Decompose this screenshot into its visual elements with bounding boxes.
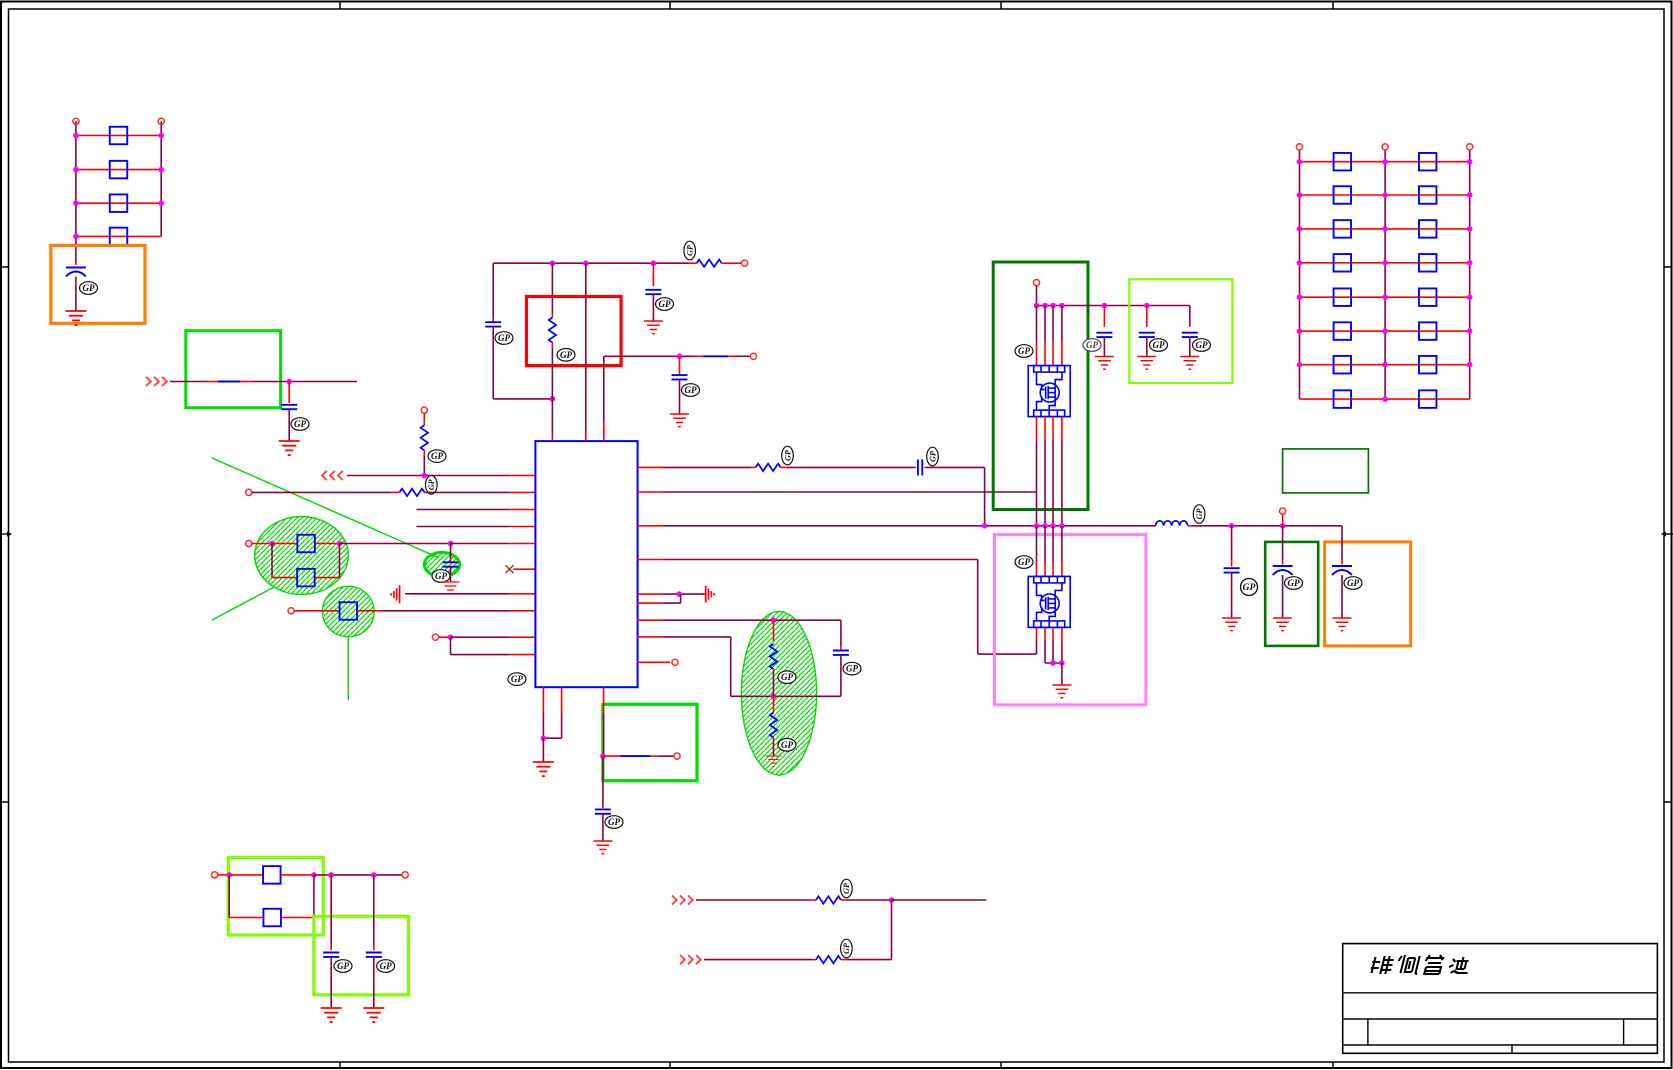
wire Q1 pin2 bot [1044, 417, 1046, 441]
label C17 GP [377, 960, 395, 973]
capacitor C7 series [917, 459, 919, 475]
node rail right [160, 121, 162, 236]
wire IN1 b [251, 381, 357, 383]
junction grid M8 [1382, 396, 1388, 402]
wire N3 [416, 526, 509, 528]
wire R10 to port [722, 262, 742, 264]
wire Q2 pin3 top [1052, 526, 1054, 562]
green annotation box 2 [186, 331, 281, 408]
capacitor C5 [645, 289, 661, 291]
svg-text:GP: GP [783, 450, 792, 461]
highlight circle around C-TP [424, 552, 459, 576]
wire OUT1 [347, 475, 510, 477]
port arrows IN3 [680, 955, 701, 964]
label R11 GP [557, 349, 575, 362]
resistor RG2 [1419, 153, 1437, 171]
junction grid R7 [1467, 362, 1473, 368]
svg-text:GP: GP [928, 451, 937, 462]
junction Qbus3 [1050, 303, 1056, 309]
orange annotation box 1 [51, 245, 145, 323]
wire Q1 pin1 bot [1036, 417, 1038, 441]
resistor RG8 [1419, 254, 1437, 271]
junction JB2 [600, 753, 606, 759]
label C11 GP [1150, 339, 1168, 352]
wire C15 stem [1341, 526, 1343, 560]
junction grid M1 [1382, 159, 1388, 165]
junction J4a [269, 541, 275, 547]
wire Q2 gate tail [1036, 627, 1038, 640]
wire IN1 a [170, 381, 207, 383]
fuse F1 [218, 381, 240, 383]
wire grid row 1b [1385, 161, 1470, 163]
light green annotation box 2 [228, 857, 323, 935]
svg-text:GP: GP [498, 333, 510, 343]
svg-text:GP: GP [686, 245, 695, 256]
wire Q1 bus [1037, 305, 1190, 307]
wire RN5 [638, 593, 663, 595]
resistor R1 [110, 127, 128, 145]
port PG3 [1467, 144, 1473, 150]
resistor R3 [110, 194, 128, 212]
wire N4 a [252, 543, 272, 545]
junction grid L5 [1297, 294, 1303, 300]
capacitor C8 [833, 650, 849, 652]
wire N7 a [439, 636, 451, 638]
wire RN7 [638, 619, 663, 621]
junction JB1 [541, 735, 547, 741]
wire BL row2 l [229, 917, 263, 919]
wire Q1 pin4 bot [1061, 417, 1063, 441]
inductor L1 [1156, 521, 1188, 526]
resistor R13 [770, 644, 777, 669]
fuse F1 leads [207, 381, 218, 383]
port arrows OUT1 [322, 471, 343, 480]
wire N4 d [340, 543, 451, 545]
ground C3 [442, 582, 460, 594]
resistor R17 [816, 896, 841, 903]
capacitor C10 [1096, 332, 1112, 334]
dark green annotation box 2 [1283, 449, 1369, 493]
svg-text:GP: GP [560, 350, 572, 360]
svg-text:GP: GP [1086, 340, 1098, 350]
capacitor C13 [1224, 567, 1240, 569]
dark green annotation box 3 [1265, 542, 1318, 646]
wire row 2 [76, 169, 161, 171]
port PG2 [1382, 144, 1388, 150]
junction JC2 [1280, 523, 1286, 529]
wire BL row1 r [281, 874, 314, 876]
junction grid M6 [1382, 328, 1388, 334]
wire Q2 source join [1045, 662, 1062, 664]
capacitor C12 [1182, 332, 1198, 334]
wire grid row 3a [1300, 228, 1386, 230]
wire M2 b [841, 959, 847, 961]
wire bus2 [1188, 525, 1192, 527]
svg-text:GP: GP [659, 299, 671, 309]
wire C6 stem [679, 356, 681, 374]
resistor RG12 [1419, 322, 1437, 340]
wire C17 gnd [373, 957, 375, 1008]
wire Q2 pin3 bot [1052, 627, 1054, 641]
wire M1 b [841, 899, 847, 901]
wire N6 a [295, 610, 340, 612]
wire M1 a [696, 899, 812, 901]
capacitor C11 [1139, 332, 1155, 334]
label R13 GP [778, 671, 796, 684]
junction JC1 [1229, 523, 1235, 529]
chassis symbol G1 [391, 585, 399, 603]
wire C5 gnd [652, 294, 654, 321]
wire grid row 2b [1385, 194, 1470, 196]
wire grid row 3b [1385, 228, 1470, 230]
junction left row 2 [73, 167, 79, 173]
wire out row [603, 755, 621, 757]
ground C17 [363, 1008, 384, 1022]
green annotation line 1 [212, 458, 439, 558]
junction right row 2 [158, 167, 164, 173]
svg-text:GP: GP [685, 385, 697, 395]
junction grid L1 [1297, 159, 1303, 165]
junction grid M2 [1382, 192, 1388, 198]
junction J9 [677, 354, 683, 360]
resistor R4 [110, 228, 128, 246]
resistor RG15 [1334, 390, 1352, 408]
port P8 [742, 260, 748, 266]
wire C14 stem [1282, 526, 1284, 560]
svg-text:GP: GP [842, 943, 851, 954]
junction grid R4 [1467, 260, 1473, 266]
svg-text:GP: GP [1288, 578, 1300, 588]
wire Q2 pin2 bot [1044, 627, 1046, 641]
wire BL rail [228, 875, 230, 918]
ground R14 [766, 756, 782, 767]
wire Q1 top stem [1036, 286, 1038, 306]
wire RN1 stub [638, 466, 663, 468]
capacitor C6 [672, 374, 688, 376]
capacitor C4 [485, 321, 501, 323]
junction left row 1 [73, 133, 79, 139]
resistor RG5 [1334, 220, 1352, 238]
svg-text:GP: GP [842, 883, 851, 894]
wire B3 cont [602, 756, 604, 805]
port P6 [288, 608, 294, 614]
label L1 GP vertical [1193, 505, 1205, 524]
pink annotation box [995, 535, 1146, 705]
label C4 GP [495, 332, 513, 345]
wire C10 gnd [1103, 337, 1105, 356]
wire N4 b [272, 543, 297, 545]
wire RN4 gate2 [638, 559, 663, 561]
resistor R9 [340, 602, 358, 620]
wire C12 stem [1189, 306, 1191, 325]
wire R8 lead r [315, 577, 340, 579]
wire N6 b [357, 610, 382, 612]
label U1 GP [508, 673, 526, 686]
capacitor C1 [66, 267, 86, 269]
wire R8 branch left [271, 544, 273, 578]
label Q2 GP [1015, 556, 1033, 569]
highlight ellipse E1 [255, 517, 349, 595]
ground C5 [644, 321, 663, 334]
wire row 1 [76, 135, 161, 137]
resistor R14 [770, 713, 777, 738]
junction left row 3 [73, 200, 79, 206]
junction J11 [771, 617, 777, 623]
port P1 [73, 118, 79, 124]
resistor R6 [400, 489, 425, 496]
svg-text:GP: GP [337, 961, 349, 971]
label C6 GP [682, 384, 700, 397]
junction grid M4 [1382, 260, 1388, 266]
svg-text:GP: GP [781, 740, 793, 750]
wire vert2 [585, 263, 587, 430]
wire C11 gnd [1146, 337, 1148, 356]
wire left cap branch a [492, 263, 494, 318]
junction Qbus5 [1102, 303, 1108, 309]
wire RN3 bus stub [638, 525, 663, 527]
port P11 [674, 753, 680, 759]
ground C14 [1273, 618, 1292, 631]
junction JT4 [550, 396, 556, 402]
svg-text:GP: GP [83, 283, 95, 293]
resistor RG4 [1419, 186, 1437, 204]
wire Q1 pin4 top [1061, 306, 1063, 342]
wire C17 stem [373, 875, 375, 944]
label R17 GP vertical [841, 879, 853, 898]
node VTT rail left [75, 121, 77, 262]
junction grid R3 [1467, 226, 1473, 232]
ground Q2 [1052, 685, 1071, 698]
resistor R12 [756, 464, 781, 471]
resistor R10 [697, 260, 722, 267]
wire R5 top [423, 414, 425, 426]
junction grid L4 [1297, 260, 1303, 266]
label C10 GP [1083, 339, 1101, 352]
IC U1 [535, 441, 637, 687]
label C1 GP [80, 282, 98, 295]
wire cap stem [75, 262, 77, 265]
wire P13 stem [1282, 515, 1284, 526]
port P3 [421, 407, 427, 413]
junction J7 [448, 634, 454, 640]
wire RN3 bus [663, 525, 1156, 527]
wire RN1 c [925, 466, 985, 468]
junction grid R6 [1467, 328, 1473, 334]
wire C3 stem [450, 544, 452, 559]
wire RN1 b [781, 466, 787, 468]
label C5 GP [656, 298, 674, 311]
junction grid M3 [1382, 226, 1388, 232]
svg-text:GP: GP [781, 672, 793, 682]
wire N1 b [425, 491, 510, 493]
wire Rc1 top [773, 620, 775, 641]
wire VCC rail [493, 262, 689, 264]
label R6 GP vertical [426, 476, 438, 495]
capacitor C14 [1273, 565, 1293, 567]
junction grid L6 [1297, 328, 1303, 334]
green annotation line 3 [347, 637, 349, 700]
wire M2 a [704, 959, 812, 961]
junction JB4 [1050, 523, 1056, 529]
wire C2 gnd [288, 409, 290, 441]
ground U1 [533, 762, 554, 776]
svg-text:GP: GP [380, 961, 392, 971]
wire grid row 4a [1300, 262, 1386, 264]
capacitor C3 [443, 561, 459, 563]
junction JL2 [311, 872, 317, 878]
bead FB2 [620, 755, 650, 757]
wire C10 stem [1103, 306, 1105, 328]
wire B2 [561, 687, 563, 713]
label C12 GP [1193, 339, 1211, 352]
wire Q2 pin4 top [1061, 526, 1063, 562]
light green annotation box 1 [1129, 279, 1232, 383]
transistor Q1 [1028, 366, 1070, 417]
ground C13 [1222, 618, 1241, 631]
port P4 [246, 489, 252, 495]
wire grid row 6b [1385, 330, 1470, 332]
junction Qbus1 [1034, 303, 1040, 309]
wire grid row 7b [1385, 364, 1470, 366]
wire M2 riser [891, 900, 893, 960]
wire Q1 pin1 top [1036, 306, 1038, 342]
svg-text:GP: GP [427, 479, 436, 490]
port P12 [1033, 280, 1039, 286]
port P5 [246, 540, 252, 546]
wire R13 bot [773, 669, 775, 672]
grid rail C [1469, 150, 1471, 399]
wire C13 stem [1231, 526, 1233, 560]
junction JT1 [550, 260, 556, 266]
wire C14 gnd [1282, 575, 1284, 618]
svg-text:GP: GP [608, 817, 620, 827]
svg-text:GP: GP [294, 419, 306, 429]
wire RN6 [638, 602, 663, 604]
junction right row 3 [158, 200, 164, 206]
wire left cap branch b [492, 327, 494, 399]
wire C16 stem [330, 875, 332, 944]
wire N9 b [728, 355, 736, 357]
label C9 GP [605, 816, 623, 829]
resistor R16 [263, 909, 281, 927]
wire BL row1 l [229, 874, 263, 876]
resistor RG3 [1334, 186, 1352, 204]
junction JL3 [328, 872, 334, 878]
wire Q1 pin2 top [1044, 306, 1046, 342]
wire C15 gnd [1341, 575, 1343, 618]
grid rail A [1299, 150, 1301, 399]
resistor RG1 [1334, 153, 1352, 171]
left border arrow [0, 531, 12, 536]
wire row 3 [76, 202, 161, 204]
junction grid L7 [1297, 362, 1303, 368]
wire N2 [416, 509, 509, 511]
wire R5 bot [423, 450, 425, 456]
highlight ellipse E3 [741, 611, 816, 775]
highlight ellipse E2 [323, 586, 375, 636]
port P13 [1280, 508, 1286, 514]
wire grid row 8b [1385, 398, 1470, 400]
bead FB1 [703, 355, 728, 357]
ground C12 [1180, 357, 1199, 370]
capacitor C17 [366, 952, 382, 954]
port P2 [158, 118, 164, 124]
junction JQ1 [1050, 660, 1056, 666]
wire BL rail2 [313, 875, 315, 918]
capacitor C2 [281, 404, 297, 406]
wire grid row 2a [1300, 194, 1386, 196]
light green annotation box 3 [314, 916, 409, 995]
junction grid M5 [1382, 294, 1388, 300]
resistor RG7 [1334, 254, 1352, 271]
wire N4 e [451, 543, 510, 545]
wire BL row2 r [281, 917, 314, 919]
wire C2 stem [288, 382, 290, 404]
port P15 [402, 872, 408, 878]
junction JL1 [226, 872, 232, 878]
wire RN2 gate1 [638, 491, 663, 493]
wire grid row 5a [1300, 296, 1386, 298]
svg-text:GP: GP [1018, 346, 1030, 356]
chassis symbol G2 [706, 586, 714, 603]
wire C5 stem [652, 263, 654, 286]
junction JL4 [371, 872, 377, 878]
ground C2 [279, 441, 300, 455]
junction Qbus6 [1144, 303, 1150, 309]
junction J-IN1 [286, 379, 292, 385]
label C15 GP [1344, 577, 1362, 590]
wire grid row 4b [1385, 262, 1470, 264]
capacitor C15 [1332, 565, 1352, 567]
svg-text:GP: GP [1196, 340, 1208, 350]
label C2 GP [291, 418, 309, 431]
wire N4 c [315, 543, 340, 545]
junction JM1 [889, 897, 895, 903]
wire grid row 1a [1300, 161, 1386, 163]
resistor R7 [297, 535, 315, 553]
resistor R15 [263, 866, 281, 884]
junction JT3 [651, 260, 657, 266]
wire out row b [651, 755, 658, 757]
wire Rc2 top [773, 696, 775, 712]
right border arrow [1661, 531, 1673, 536]
label R18 GP vertical [841, 939, 853, 958]
junction grid R5 [1467, 294, 1473, 300]
wire Rbox top [551, 263, 553, 313]
wire N8 [450, 637, 452, 654]
capacitor C9 [595, 808, 611, 810]
wire M1 c [892, 899, 987, 901]
wire R8 branch right [339, 544, 341, 578]
port PG1 [1296, 144, 1302, 150]
capacitor C16 [323, 952, 339, 954]
label R5 GP [428, 450, 446, 463]
no-connect X1 [506, 565, 514, 573]
label C3 TP [432, 570, 450, 583]
wire Q1 pin3 bot [1052, 417, 1054, 441]
red box annotation [527, 297, 622, 366]
label C8 GP [843, 662, 861, 675]
junction J4c [448, 541, 454, 547]
wire B1 [542, 687, 544, 713]
grid rail B [1384, 150, 1386, 399]
resistor RG9 [1334, 288, 1352, 306]
junction grid L2 [1297, 192, 1303, 198]
title text 緯創資通 [1369, 955, 1471, 974]
junction JB3 [1042, 523, 1048, 529]
junction JT2 [583, 260, 589, 266]
junction J12 [771, 694, 777, 700]
